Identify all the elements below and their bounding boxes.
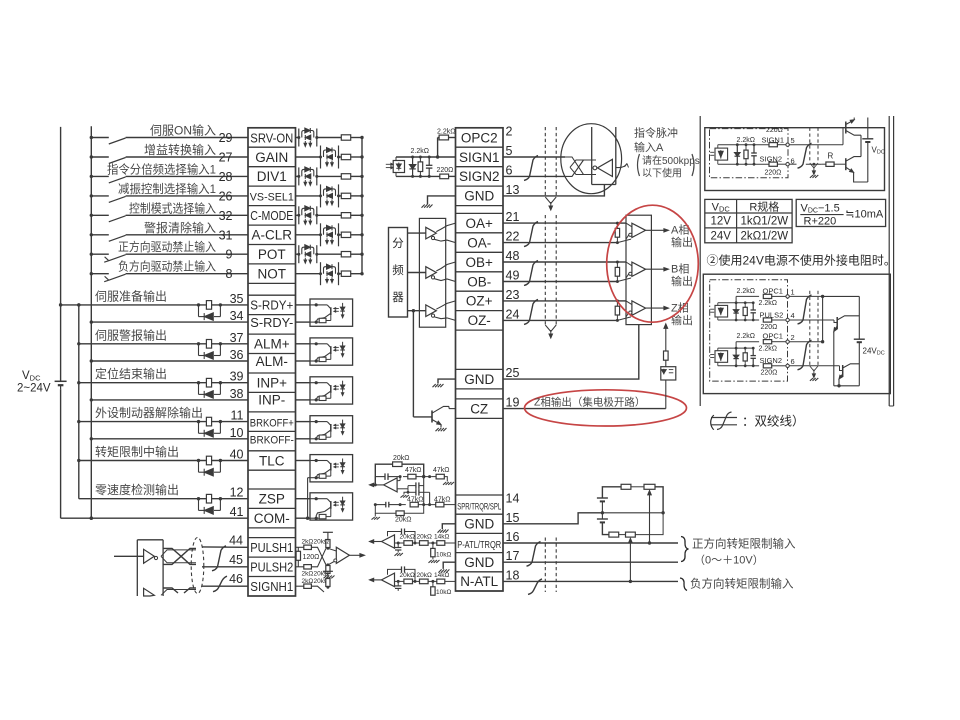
wire DIV1 resistor to bus — [351, 175, 364, 178]
svg-text:20kΩ: 20kΩ — [400, 534, 415, 541]
svg-text:2: 2 — [791, 333, 795, 342]
svg-text:R规格: R规格 — [749, 200, 779, 214]
svg-text:SIGN2: SIGN2 — [459, 169, 500, 184]
pin 37 — [230, 331, 244, 345]
label 20k (45) — [314, 571, 329, 578]
twisted-pair mark OZ — [524, 299, 538, 324]
label 2k (44) — [302, 539, 314, 546]
svg-text:B相: B相 — [671, 262, 689, 275]
box1 label Vdc — [872, 146, 885, 156]
big loop ellipse — [561, 124, 622, 194]
svg-text:20kΩ: 20kΩ — [417, 534, 432, 541]
label 10k N — [436, 589, 451, 596]
label 伺服ON输入 — [150, 123, 216, 138]
receiver Z — [626, 301, 646, 317]
label ②使用24V电源 — [707, 253, 896, 268]
svg-text:输出: 输出 — [671, 274, 693, 288]
terminator resistor Z — [615, 301, 619, 321]
svg-text:负方向转矩限制输入: 负方向转矩限制输入 — [690, 577, 794, 591]
ground GND25 — [433, 379, 456, 387]
twisted-pair mark OA — [524, 222, 538, 247]
pin 32 — [219, 209, 233, 223]
wire crossing 44/45 — [311, 547, 329, 567]
wire S-RDY+ box stubs — [296, 305, 311, 322]
wire A-CLR resistor to bus — [351, 233, 364, 236]
resistor input VS-SEL1 — [341, 193, 350, 198]
shield dashes encoder — [545, 215, 556, 325]
table text 24V — [710, 231, 731, 243]
wire CZ output — [503, 408, 666, 410]
svg-text:转矩限制中输出: 转矩限制中输出 — [95, 444, 179, 459]
box1 label 220 bottom — [765, 170, 782, 177]
optocoupler output ALM+/ALM- — [310, 338, 353, 365]
shield dashes torque — [545, 538, 556, 593]
wire output relay bus — [77, 303, 80, 499]
wire OZ- to receiver — [503, 317, 631, 322]
svg-text:28: 28 — [219, 170, 233, 184]
brace torque neg — [680, 578, 687, 591]
svg-text:32: 32 — [219, 209, 233, 223]
svg-text:40: 40 — [230, 448, 244, 462]
caps SPR middle — [397, 482, 429, 497]
wire output row ALM- — [90, 359, 248, 362]
resistor 120ohm — [296, 547, 300, 567]
svg-text:9: 9 — [226, 248, 233, 262]
table text 12V — [710, 216, 731, 228]
pin 31 — [219, 228, 233, 242]
svg-text:POT: POT — [258, 247, 286, 262]
wire SIGN1 rail — [396, 156, 456, 158]
pin 36 — [230, 348, 244, 362]
box1 transistor Q1 — [846, 118, 861, 153]
label 指令分倍频选择输入1 — [107, 161, 216, 176]
svg-text:OPC1: OPC1 — [763, 286, 783, 295]
red ellipse encoder outputs — [607, 205, 699, 322]
frequency divider box 分频器 — [389, 228, 408, 318]
resistor 20k pullup (44) — [323, 532, 333, 548]
svg-text:S-RDY-: S-RDY- — [250, 315, 293, 330]
wire N-ATL right — [503, 580, 678, 583]
svg-text:45: 45 — [229, 553, 243, 567]
svg-text:指令分倍频选择输入1: 指令分倍频选择输入1 — [107, 161, 216, 176]
svg-text:PULS2: PULS2 — [760, 310, 784, 319]
box1 resistor R — [822, 162, 843, 166]
connector box CN X4 middle — [456, 128, 504, 591]
label A output — [671, 224, 693, 250]
wire input row GAIN with switch — [90, 155, 248, 163]
wire input row POT with switch — [90, 253, 248, 263]
line driver A (44/45) — [114, 549, 158, 563]
svg-text:2.2kΩ: 2.2kΩ — [437, 129, 455, 136]
label 20k N1 — [400, 572, 415, 579]
svg-text:1kΩ1/2W: 1kΩ1/2W — [741, 216, 789, 228]
resistor input C-MODE — [341, 213, 350, 218]
optocoupler input GAIN — [319, 146, 340, 169]
svg-text:47kΩ: 47kΩ — [407, 496, 424, 503]
outer border right — [889, 116, 893, 406]
outer border left — [699, 116, 701, 406]
svg-text:GAIN: GAIN — [255, 150, 288, 165]
wire SIGN2 right — [503, 175, 565, 177]
shield dashes SIGN — [545, 127, 556, 197]
svg-text:R+220: R+220 — [804, 216, 837, 228]
svg-text:4: 4 — [791, 311, 795, 320]
resistor SIGN vertical — [418, 156, 423, 178]
svg-text:47kΩ: 47kΩ — [434, 496, 451, 503]
box1 shield dashes — [810, 128, 818, 163]
resistor input GAIN — [341, 154, 350, 159]
svg-text:减振控制选择输入1: 减振控制选择输入1 — [118, 181, 216, 196]
pin 9 — [226, 248, 233, 262]
box1 frame — [705, 128, 885, 191]
svg-text:5: 5 — [506, 144, 513, 158]
svg-text:24V: 24V — [710, 231, 731, 243]
svg-text:②使用24V电源不使用外接电阻时。: ②使用24V电源不使用外接电阻时。 — [707, 253, 896, 268]
box1 rail SIGN2 — [718, 163, 769, 166]
shield ground SIGN — [545, 197, 556, 210]
box2 label 24Vdc — [863, 347, 885, 357]
svg-text:2.2kΩ: 2.2kΩ — [759, 346, 777, 353]
wire Z to CZ transistor — [413, 311, 432, 417]
svg-text:伺服ON输入: 伺服ON输入 — [150, 123, 216, 138]
svg-text:220Ω: 220Ω — [765, 170, 782, 177]
pin 27 — [219, 151, 233, 165]
svg-text:10: 10 — [230, 426, 244, 440]
svg-text:37: 37 — [230, 331, 244, 345]
box2 labels g1 — [737, 286, 795, 330]
pin 8 — [226, 267, 233, 281]
svg-text:19: 19 — [506, 396, 520, 410]
terminator resistor B — [615, 262, 619, 282]
optocoupler input POT — [297, 245, 318, 264]
wire input row C-MODE with switch — [90, 214, 248, 222]
svg-text:外设制动器解除输出: 外设制动器解除输出 — [95, 405, 203, 420]
svg-text:C-MODE: C-MODE — [250, 208, 293, 223]
svg-text:36: 36 — [230, 348, 244, 362]
svg-text:OA+: OA+ — [466, 216, 494, 231]
receiver A — [626, 223, 646, 239]
svg-text:20kΩ: 20kΩ — [314, 539, 329, 546]
svg-text:2.2kΩ: 2.2kΩ — [759, 300, 777, 307]
shield ground encoder — [545, 325, 556, 338]
label 14k N — [434, 572, 449, 579]
ground GND15 — [438, 524, 456, 533]
brace torque pos — [681, 537, 689, 562]
svg-text:8: 8 — [226, 267, 233, 281]
label 负方向转矩限制输入 — [690, 577, 794, 591]
svg-text:16: 16 — [506, 530, 520, 544]
box2 labels g2 — [737, 332, 795, 377]
svg-text:：双绞线）: ：双绞线） — [742, 414, 805, 429]
svg-text:OZ+: OZ+ — [466, 294, 493, 309]
box1 cap — [751, 145, 757, 165]
box2 battery 24Vdc — [854, 296, 865, 385]
svg-text:Z相输出（集电极开路）: Z相输出（集电极开路） — [534, 395, 645, 408]
cable sheath (dashed ellipse) — [191, 538, 204, 594]
svg-text:VDC−1.5: VDC−1.5 — [801, 202, 840, 214]
line driver B (46/47) partial — [144, 588, 196, 596]
table frame — [705, 199, 792, 242]
formula box — [796, 199, 885, 226]
svg-text:SIGNH1: SIGNH1 — [250, 579, 293, 594]
wire GND13 to loop — [503, 185, 604, 196]
svg-text:20kΩ: 20kΩ — [395, 517, 412, 524]
label 20k SPR bottom — [395, 517, 412, 524]
svg-text:VS-SEL1: VS-SEL1 — [250, 192, 294, 204]
box1 res 220 SIGN1 — [769, 143, 786, 147]
wire input row DIV1 with switch — [90, 175, 248, 183]
box2 chain-dash box — [710, 280, 788, 381]
label Z output — [671, 301, 693, 327]
wire output row S-RDY- — [90, 320, 248, 323]
pin 40 — [230, 448, 244, 462]
label Vdc 2~24V — [17, 370, 51, 395]
wire DIV1 to resistor — [296, 175, 342, 177]
svg-text:20kΩ: 20kΩ — [393, 455, 410, 462]
ground GND17 — [438, 562, 455, 572]
wire OA- to receiver — [503, 239, 631, 244]
label 2k (46) — [302, 578, 314, 585]
svg-text:220Ω: 220Ω — [761, 370, 778, 377]
legend twisted pair — [699, 412, 805, 433]
svg-text:2.2kΩ: 2.2kΩ — [411, 148, 429, 155]
svg-text:定位结束输出: 定位结束输出 — [95, 366, 167, 381]
svg-text:P-ATL/TRQR: P-ATL/TRQR — [457, 539, 501, 551]
resistor 2.2k OPC2 — [436, 135, 456, 159]
svg-text:120Ω: 120Ω — [303, 554, 320, 561]
twisted-pair mark SIGN — [524, 156, 538, 181]
svg-text:指令脉冲: 指令脉冲 — [634, 126, 678, 140]
wire input row SRV-ON with switch — [90, 136, 248, 144]
svg-text:10kΩ: 10kΩ — [436, 552, 451, 559]
twisted-pair mark 16/17 — [527, 542, 541, 567]
svg-text:2kΩ1/2W: 2kΩ1/2W — [741, 231, 789, 243]
optocoupler SIGN input — [386, 157, 405, 176]
wire input common bus — [90, 126, 93, 520]
box2 transistor Q2 — [789, 364, 859, 386]
svg-text:49: 49 — [506, 269, 520, 283]
wire SPR row — [375, 502, 455, 508]
label 伺服警报输出 — [95, 327, 167, 342]
svg-text:6: 6 — [506, 163, 513, 177]
battery lower ext — [597, 519, 608, 522]
wire output row COM- — [90, 517, 93, 520]
svg-text:以下使用: 以下使用 — [642, 167, 682, 180]
label 转矩限制中输出 — [95, 444, 179, 459]
line driver OZ — [408, 301, 456, 321]
pin 10 — [230, 426, 244, 440]
svg-text:44: 44 — [229, 533, 243, 547]
optocoupler output INP+/INP- — [310, 377, 353, 404]
pin 34 — [230, 309, 244, 323]
svg-text:控制模式选择输入: 控制模式选择输入 — [129, 200, 216, 215]
svg-text:17: 17 — [506, 549, 520, 563]
wire PULSH1 lead — [202, 546, 248, 548]
box1 label 2.2k — [737, 137, 755, 144]
pin 39 — [230, 370, 244, 384]
wire A-CLR to resistor — [296, 234, 342, 236]
svg-text:ALM+: ALM+ — [254, 337, 290, 352]
svg-text:BRKOFF+: BRKOFF+ — [250, 417, 294, 429]
pin 12 — [230, 486, 244, 500]
svg-text:2kΩ: 2kΩ — [302, 571, 314, 578]
box1 twisted mark — [798, 143, 812, 168]
arrow B output — [646, 268, 669, 271]
table text Vdc — [712, 201, 731, 213]
left connector row dividers — [248, 128, 296, 577]
wire SIGNH1 lead — [202, 585, 248, 587]
wire NOT resistor to bus — [351, 272, 364, 275]
label 零速度检测输出 — [95, 482, 179, 497]
pot wiper arrow 2 — [629, 538, 633, 581]
optocoupler input VS-SEL1 — [319, 184, 340, 207]
label 0~+10V — [694, 554, 764, 567]
resistor 20k pullup (46) — [323, 571, 333, 587]
box1 transistor Q2 — [843, 152, 868, 182]
box2 group OPC1/SIGN2 — [710, 340, 789, 368]
pin 44 — [229, 533, 243, 547]
label 20k (46) — [314, 578, 329, 585]
box1 chain-dash box — [710, 129, 789, 178]
box2 shield dashes — [810, 291, 818, 366]
svg-text:14kΩ: 14kΩ — [434, 572, 449, 579]
pin 11 — [231, 409, 244, 423]
resistor input NOT — [341, 271, 350, 276]
label 2.2k SIGN — [411, 148, 429, 155]
wire output row ALM+ — [77, 340, 248, 360]
label 2k (45) — [302, 571, 314, 578]
wire receiver gnd — [503, 325, 639, 380]
twisted-pair mark 44/45 — [212, 546, 226, 571]
svg-text:25: 25 — [506, 366, 520, 380]
wire INP+ box stubs — [296, 383, 311, 400]
svg-text:NOT: NOT — [258, 267, 287, 282]
wire TLC box stubs — [296, 461, 311, 520]
label 20k P2 — [417, 534, 432, 541]
box1 resistor v — [744, 145, 748, 165]
svg-text:47kΩ: 47kΩ — [433, 467, 450, 474]
optocoupler output BRKOFF+/BRKOFF- — [310, 416, 353, 443]
twisted-pair mark 18 — [528, 579, 542, 595]
wire SRV-ON to resistor — [296, 137, 342, 139]
box1 label SIGN1 — [762, 136, 785, 145]
feedback 20k SPR — [375, 462, 423, 485]
receiver pulse input A — [593, 159, 612, 176]
label 指令脉冲输入A — [634, 126, 678, 155]
svg-text:ZSP: ZSP — [259, 492, 285, 507]
label 负方向驱动禁止输入 — [118, 259, 216, 274]
box1 wire pins — [789, 128, 846, 165]
box1 pin6 — [786, 157, 795, 166]
svg-text:频: 频 — [392, 263, 404, 277]
svg-text:220Ω: 220Ω — [761, 324, 778, 331]
pin 26 — [219, 189, 233, 203]
svg-text:2.2kΩ: 2.2kΩ — [737, 137, 755, 144]
label 正方向驱动禁止输入 — [118, 239, 216, 254]
wire OZ+ to receiver — [503, 299, 626, 302]
svg-text:22: 22 — [506, 230, 520, 244]
table text 2k — [741, 231, 789, 243]
wire driver A outputs twisted — [161, 548, 196, 564]
twisted-pair mark OB — [524, 261, 538, 286]
capacitor SIGN — [426, 156, 433, 178]
optocoupler output TLC — [310, 455, 353, 482]
svg-text:47kΩ: 47kΩ — [405, 467, 422, 474]
transistor CZ — [432, 406, 456, 427]
svg-text:46: 46 — [229, 572, 243, 586]
pin 46 — [229, 572, 243, 586]
wire OB- to receiver — [503, 278, 631, 283]
label 伺服准备输出 — [95, 288, 167, 303]
svg-text:R: R — [828, 152, 834, 161]
svg-text:INP-: INP- — [258, 393, 285, 408]
svg-text:35: 35 — [230, 292, 244, 306]
svg-text:12: 12 — [230, 486, 244, 500]
wire POT to resistor — [296, 253, 342, 255]
box2 bottom rail — [834, 384, 860, 387]
label 14k P — [434, 534, 449, 541]
formula fraction — [800, 202, 884, 227]
box1 res 220 SIGN2 — [769, 162, 786, 166]
resistor 2k (45) — [296, 565, 312, 569]
line driver OB — [408, 262, 456, 282]
table text 1k — [741, 216, 789, 228]
svg-text:SPR/TRQR/SPL: SPR/TRQR/SPL — [457, 501, 501, 511]
pot wiper arrow 1 — [648, 491, 652, 544]
line-driver box external — [137, 540, 163, 596]
svg-text:2: 2 — [506, 125, 513, 139]
svg-text:DIV1: DIV1 — [257, 169, 287, 184]
svg-text:21: 21 — [506, 210, 520, 224]
connector box CN X4 left — [248, 128, 296, 596]
loop coil verticals — [592, 127, 616, 185]
svg-text:ALM-: ALM- — [256, 354, 288, 369]
label 47k SPR 1 — [405, 467, 422, 474]
resistor 220 SIGN2 — [440, 174, 456, 179]
wire NOT to resistor — [296, 273, 342, 275]
loop 20k SPR bottom — [372, 503, 424, 519]
receiver B — [626, 262, 646, 278]
svg-text:2.2kΩ: 2.2kΩ — [737, 333, 755, 340]
svg-text:20kΩ: 20kΩ — [400, 572, 415, 579]
resistor input A-CLR — [341, 232, 350, 237]
svg-text:（0～＋10V）: （0～＋10V） — [694, 554, 764, 567]
resistor 20k pulldown (45) — [324, 566, 335, 579]
svg-text:OPC2: OPC2 — [461, 130, 498, 145]
pin 38 — [230, 387, 244, 401]
wire SIGN2 rail — [396, 175, 440, 177]
box1 label SIGN2 — [760, 155, 783, 164]
svg-text:14: 14 — [506, 492, 520, 506]
wire input row A-CLR with switch — [90, 233, 248, 241]
svg-text:24: 24 — [506, 307, 520, 321]
pin 35 — [230, 292, 244, 306]
svg-text:N-ATL: N-ATL — [460, 574, 498, 589]
box1 optocoupler — [710, 145, 727, 165]
svg-text:CZ: CZ — [470, 401, 488, 416]
svg-text:20kΩ: 20kΩ — [417, 572, 432, 579]
svg-text:6: 6 — [791, 357, 795, 366]
box1 pin5 — [786, 136, 795, 146]
resistor input SRV-ON — [341, 135, 350, 140]
optocoupler input SRV-ON — [297, 128, 318, 147]
middle connector row dividers — [456, 128, 504, 591]
label 47k SPR 2 — [433, 467, 450, 474]
wire crossing SIGN pair — [565, 157, 596, 176]
wire mid pot — [601, 501, 665, 519]
svg-text:器: 器 — [392, 291, 404, 304]
svg-text:OA-: OA- — [467, 235, 491, 250]
